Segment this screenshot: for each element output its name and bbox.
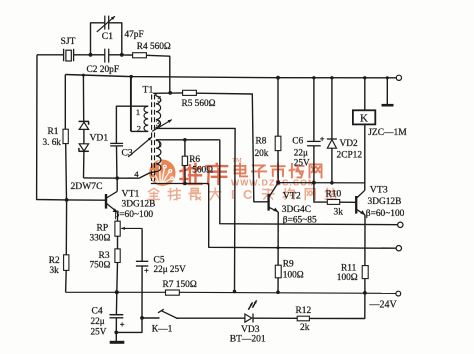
wire bottom rail right (179, 292, 396, 293)
T1 winding lower-right (156, 140, 161, 171)
svg-text:560Ω: 560Ω (192, 166, 213, 176)
node R11 bottom (363, 291, 367, 295)
svg-text:22μ: 22μ (91, 316, 105, 326)
capacitor C4 (110, 314, 124, 316)
wire VT1 base (67, 199, 106, 201)
wire VD1 to VT1 collector (84, 177, 140, 179)
wire collector to R10 (314, 183, 327, 202)
wire R1 to base node (65, 144, 68, 200)
watermark char c0 (263, 189, 274, 200)
wire pin5 to R5 (153, 92, 182, 94)
svg-text:R1: R1 (48, 127, 59, 137)
transistor VT3 (355, 196, 357, 214)
wire T1 pin1(left) lead (116, 106, 148, 143)
svg-text:C3: C3 (122, 147, 133, 158)
svg-text:T1: T1 (143, 85, 154, 96)
wire pin4 diagonal lead (139, 172, 153, 178)
wire VT1 collector (116, 178, 118, 191)
wire R8 top lead (277, 78, 279, 137)
wire VT1 emitter down (117, 212, 119, 221)
T1 tuning arrow upper (152, 120, 172, 132)
resistor R12 (297, 316, 309, 321)
svg-text:R9: R9 (283, 260, 294, 270)
node R9 bottom (276, 290, 280, 294)
wire to R4 (122, 54, 133, 56)
wire output line 1 (220, 140, 398, 225)
svg-text:JZC—1M: JZC—1M (368, 128, 407, 138)
svg-text:I: I (231, 187, 235, 202)
crystal SJT (63, 49, 65, 61)
watermark char m3 (290, 164, 304, 178)
diode VD1 upper (79, 120, 89, 122)
resistor R2 (64, 255, 69, 271)
svg-text:C6: C6 (292, 136, 303, 146)
svg-text:+: + (320, 134, 325, 144)
node VD1 top (82, 74, 85, 77)
watermark char c2 (305, 189, 315, 200)
node C6 top (312, 76, 315, 79)
svg-text:C1: C1 (102, 31, 113, 42)
wire top supply rail (65, 75, 396, 78)
node collector-C3 junction (115, 176, 119, 180)
wire VD1 mid (83, 129, 85, 143)
wire pin2 drop line (130, 77, 132, 132)
svg-text:25V: 25V (294, 158, 310, 168)
svg-text:K: K (360, 113, 368, 125)
wire collector net right (278, 182, 365, 184)
RP wiper arrow (121, 227, 142, 229)
svg-text:47pF: 47pF (125, 30, 144, 40)
svg-text:3DG12B: 3DG12B (368, 197, 402, 207)
node emitter-output2 (277, 246, 280, 249)
svg-text:3DG12B: 3DG12B (122, 199, 156, 209)
node VD2 top (330, 76, 333, 79)
resistor R8 (275, 136, 281, 150)
terminal circle output 2 (396, 246, 401, 251)
svg-text:R4 560Ω: R4 560Ω (137, 42, 171, 52)
resistor R1 (63, 129, 68, 143)
svg-text:VD2: VD2 (340, 139, 359, 149)
svg-text:R3: R3 (99, 251, 110, 261)
wire R2 to rail (65, 270, 68, 292)
watermark char c3 (325, 188, 336, 199)
wire C5 to switch (141, 266, 143, 318)
node R6 bottom (183, 182, 187, 186)
svg-text:R8: R8 (256, 137, 267, 147)
node R8 top (276, 76, 280, 80)
node C2-left junction (89, 53, 93, 57)
svg-text:R12: R12 (296, 306, 312, 316)
relay K box (353, 110, 375, 124)
node VT2 collector (276, 181, 280, 185)
svg-text:R10: R10 (326, 189, 342, 199)
wire VT3 emitter down (364, 215, 366, 266)
switch K-1 (161, 311, 176, 318)
svg-text:VT1: VT1 (122, 189, 140, 200)
resistor R5 (183, 90, 197, 95)
wire VD1 top lead (82, 75, 84, 121)
node R6 top (183, 138, 187, 142)
wire C4 bottom lead (115, 318, 117, 332)
svg-text:R6: R6 (189, 155, 200, 165)
node ground junction (114, 331, 118, 335)
watermark char b2 (189, 188, 200, 199)
wire VD2 top lead (331, 78, 333, 139)
svg-text:VD3: VD3 (241, 325, 260, 335)
node ground stub top (386, 76, 389, 79)
svg-text:+: + (144, 265, 149, 275)
watermark char m4 (310, 164, 322, 177)
svg-text:R5 560Ω: R5 560Ω (182, 99, 216, 109)
node C2-right junction (120, 53, 124, 57)
wire K top lead (364, 78, 366, 111)
T1 winding upper-right (156, 96, 161, 127)
wire VD3 to R12 (253, 317, 297, 319)
svg-text:100Ω: 100Ω (337, 273, 358, 283)
wire collector net left (151, 183, 209, 185)
svg-text:3k: 3k (334, 207, 344, 217)
T1 tuning arrow lower (128, 137, 152, 157)
svg-text:C: C (243, 187, 253, 202)
svg-text:22μ: 22μ (294, 148, 308, 158)
svg-text:К—1: К—1 (152, 324, 173, 334)
svg-text:2: 2 (137, 124, 141, 134)
wire R8 bottom lead (277, 151, 279, 183)
node switch left (140, 316, 144, 320)
diode VD2 (327, 138, 337, 140)
wire K bottom lead (364, 124, 366, 190)
node C4 top (115, 290, 119, 294)
node R4 junction (168, 91, 172, 95)
svg-text:2DW7C: 2DW7C (71, 181, 103, 192)
wire pin1 lower to corner (156, 139, 220, 141)
watermark char b0 (148, 188, 159, 199)
diode VD1 lower (79, 144, 88, 151)
wire R3 to rail (116, 263, 119, 293)
svg-text:20k: 20k (255, 149, 269, 159)
svg-text:C2 20pF: C2 20pF (87, 65, 120, 75)
T1 core (151, 95, 153, 182)
capacitor C2 (91, 54, 105, 56)
watermark char m1 (252, 165, 266, 177)
wire RP to R3 (117, 236, 119, 249)
resistor R4 (133, 53, 147, 58)
wire R4 to T1 pin5 node (146, 55, 169, 93)
wire crystal left lead (37, 54, 63, 56)
watermark letters IC (231, 187, 253, 202)
svg-text:2k: 2k (300, 323, 310, 333)
svg-text:β=60~100: β=60~100 (115, 210, 154, 220)
svg-text:R7 150Ω: R7 150Ω (163, 280, 197, 290)
watermark char b3 (210, 188, 221, 199)
svg-text:100Ω: 100Ω (283, 271, 304, 281)
svg-text:3. 6k: 3. 6k (43, 137, 62, 147)
wire C6 top lead (313, 78, 315, 141)
watermark char m0 (235, 164, 247, 177)
resistor R6 (184, 140, 186, 156)
wire R5 to VT2 base (196, 93, 267, 202)
node relay K top (363, 76, 366, 79)
ground (top right) (386, 78, 388, 104)
wire switch to VD3 (176, 317, 245, 319)
svg-text:VD1: VD1 (90, 133, 109, 144)
wire crystal drop (37, 55, 67, 200)
capacitor C1 variable (104, 16, 106, 30)
capacitor C5 (136, 260, 148, 262)
wire output line 2 (209, 184, 396, 249)
watermark char b1 (168, 188, 180, 199)
node pin2 drop (130, 75, 133, 78)
VD3 emission arrows (248, 302, 252, 309)
resistor R10 (327, 200, 339, 205)
wire C1 loop (91, 23, 105, 55)
svg-text:3k: 3k (50, 265, 60, 275)
svg-text:330Ω: 330Ω (90, 233, 111, 243)
node pin3 bottom (233, 290, 237, 294)
T1 winding left (144, 106, 148, 131)
wire wiper to C5 (141, 228, 143, 261)
svg-text:4: 4 (134, 169, 139, 179)
svg-text:—24V: —24V (369, 300, 398, 311)
svg-text:750Ω: 750Ω (90, 260, 111, 270)
svg-text:VT3: VT3 (370, 185, 388, 196)
node VT1 base junction (65, 198, 69, 202)
wire R11 to rail (364, 279, 366, 293)
wire switch left lead (142, 317, 160, 319)
wire R12 to rail (309, 293, 365, 319)
wire pin3 to rail (156, 128, 235, 291)
terminal circle output 1 (398, 222, 403, 227)
svg-text:5: 5 (157, 94, 162, 104)
watermark brand characters (180, 164, 201, 184)
ground (C4) (115, 332, 117, 341)
svg-text:R11: R11 (341, 263, 357, 273)
svg-text:2CP12: 2CP12 (337, 150, 363, 160)
resistor R3 (115, 249, 120, 263)
transistor VT2 (267, 194, 269, 211)
watermark char c1 (283, 188, 294, 199)
svg-text:BT—201: BT—201 (230, 335, 266, 345)
transistor VT1 (105, 194, 107, 209)
capacitor C6 (307, 140, 321, 142)
resistor R9 (275, 265, 281, 278)
wire C4 top lead (115, 292, 117, 314)
node C6 bottom (312, 181, 316, 185)
wire VT2 emitter down (277, 212, 279, 265)
watermark url text (231, 178, 316, 188)
svg-text:3DG4C: 3DG4C (282, 205, 311, 215)
capacitor C3 variable (110, 142, 123, 144)
wire R9 to rail (277, 278, 279, 292)
watermark char m2 (271, 164, 285, 178)
wire VD1 bottom lead (83, 151, 85, 178)
svg-text:β=60~100: β=60~100 (366, 209, 405, 219)
wire R10 to VT3 base (340, 201, 356, 203)
svg-text:1: 1 (136, 107, 140, 117)
svg-text:25V: 25V (91, 327, 107, 337)
terminal circle top right (396, 75, 401, 80)
svg-text:+: + (120, 319, 125, 329)
svg-text:β=65~85: β=65~85 (283, 215, 317, 225)
svg-text:RP: RP (97, 224, 109, 234)
wire bottom rail left (66, 291, 166, 293)
svg-text:22μ 25V: 22μ 25V (154, 264, 187, 274)
led VD3 (245, 314, 252, 322)
wire R1 top (64, 75, 66, 130)
resistor R11 (362, 266, 368, 279)
svg-text:SJT: SJT (61, 36, 76, 47)
terminal circle -24V (396, 291, 401, 296)
svg-text:VT2: VT2 (283, 191, 301, 202)
watermark logo circle (149, 160, 175, 186)
wire ground link (116, 318, 142, 333)
wire R2 top (65, 200, 67, 255)
resistor R7 (166, 290, 180, 295)
node VD2 bottom (330, 181, 334, 185)
potentiometer RP (115, 221, 120, 236)
